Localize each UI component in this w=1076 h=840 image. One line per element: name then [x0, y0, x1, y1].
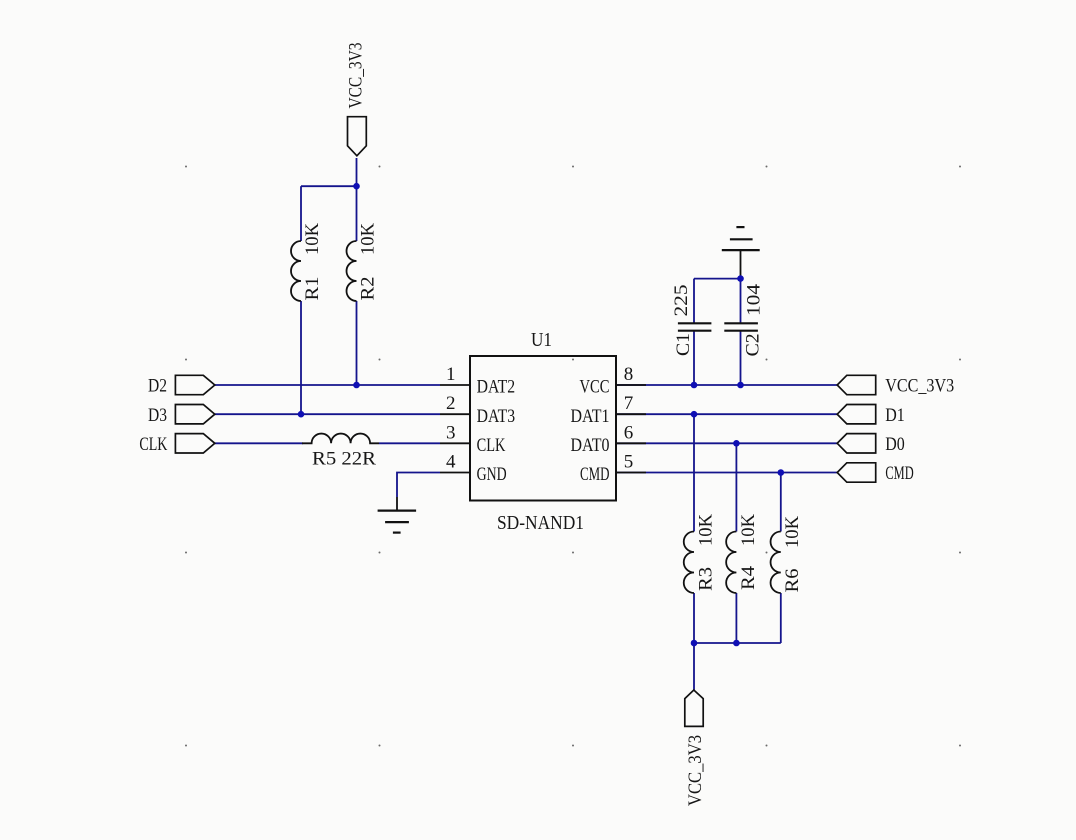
- chip U1 pin 4 stub: [440, 472, 470, 474]
- svg-text:10K: 10K: [782, 516, 803, 548]
- wire: R4 bottom lead to bottom rail: [735, 593, 737, 643]
- wire: R1 bottom to net D3: [300, 301, 302, 414]
- svg-text:R1: R1: [302, 277, 323, 301]
- svg-text:C1: C1: [673, 333, 694, 356]
- svg-text:R6: R6: [782, 569, 803, 593]
- svg-text:SD-NAND1: SD-NAND1: [497, 512, 584, 534]
- svg-text:VCC_3V3: VCC_3V3: [885, 376, 954, 397]
- svg-text:GND: GND: [477, 464, 507, 485]
- junction R4 / bottom rail: [733, 640, 740, 647]
- svg-text:5: 5: [624, 452, 634, 473]
- svg-text:7: 7: [624, 393, 634, 414]
- svg-text:10K: 10K: [696, 514, 717, 546]
- svg-text:CMD: CMD: [885, 463, 913, 484]
- wire: R4 top lead from net D0: [735, 443, 737, 531]
- chip U1 pin 6 stub: [616, 442, 646, 444]
- svg-text:C2: C2: [743, 333, 764, 356]
- wire: bottom rail to VCC_3V3 bottom flag: [693, 643, 695, 690]
- svg-text:D2: D2: [148, 376, 167, 397]
- wire: R1 top lead vertical: [300, 186, 302, 241]
- wire: C2 bottom lead to net VCC: [740, 331, 742, 385]
- chip U1 pin 8 stub: [616, 384, 646, 386]
- chip U1 pin 1 stub: [440, 384, 470, 386]
- chip U1 pin 5 stub: [616, 472, 646, 474]
- port D1: [837, 405, 876, 424]
- svg-text:CMD: CMD: [580, 464, 610, 485]
- svg-text:R5 22R: R5 22R: [312, 449, 376, 470]
- svg-text:DAT2: DAT2: [477, 377, 515, 398]
- junction R3 / net D1: [691, 411, 698, 418]
- port CLK: [175, 434, 214, 453]
- chip U1 body SD-NAND1: [470, 356, 616, 501]
- wire: R3 bottom lead to bottom rail: [693, 593, 695, 643]
- svg-text:8: 8: [624, 364, 634, 385]
- svg-text:225: 225: [671, 285, 692, 317]
- wire: C1 top lead: [693, 279, 695, 324]
- capacitor C1 plates: [678, 323, 712, 330]
- svg-text:VCC: VCC: [580, 377, 610, 398]
- svg-text:10K: 10K: [302, 223, 323, 255]
- chip U1 pin 2 stub: [440, 413, 470, 415]
- svg-text:3: 3: [446, 422, 456, 443]
- wire: C2 top lead: [740, 279, 742, 324]
- wire: node A horizontal to R1: [301, 185, 357, 187]
- svg-text:VCC_3V3: VCC_3V3: [346, 43, 367, 109]
- wire: R6 top lead from net CMD: [780, 473, 782, 532]
- wire: R6 bottom lead to bottom rail: [780, 593, 782, 643]
- chip U1 pin 7 stub: [616, 413, 646, 415]
- svg-text:VCC_3V3: VCC_3V3: [685, 735, 706, 806]
- svg-text:2: 2: [446, 393, 456, 414]
- junction C2 / net VCC: [737, 382, 744, 389]
- svg-text:104: 104: [744, 283, 765, 316]
- wire: VCC_3V3 top flag stem to node A: [356, 158, 358, 186]
- capacitor C2 plates: [724, 323, 758, 330]
- wire: R2 top lead vertical: [356, 186, 358, 241]
- svg-text:DAT0: DAT0: [571, 435, 610, 456]
- resistor R6 coil: [771, 532, 781, 594]
- wire: capacitor top rail C1 to C2: [694, 278, 741, 280]
- svg-text:D3: D3: [148, 405, 167, 426]
- wire: net D0 from U1 pin 6 to port D0: [616, 442, 837, 444]
- wire: net D2 from port D2 to U1 pin 1: [215, 384, 440, 386]
- svg-text:DAT1: DAT1: [571, 406, 610, 427]
- wire: U1 pin 4 to ground: [397, 473, 440, 498]
- junction R3 / bottom rail: [691, 640, 698, 647]
- svg-text:D0: D0: [885, 434, 905, 455]
- wire: net CMD from U1 pin 5 to port CMD: [616, 472, 837, 474]
- svg-text:D1: D1: [885, 405, 905, 426]
- svg-text:R3: R3: [696, 567, 717, 591]
- junction R6 / net CMD: [778, 469, 785, 476]
- junction C2 / top rail / ground: [737, 275, 744, 282]
- resistor R4 coil: [726, 532, 736, 594]
- svg-text:CLK: CLK: [477, 435, 506, 456]
- wire: CLK from port to R5: [215, 442, 303, 444]
- ground symbol top (for C1 C2): [722, 227, 760, 250]
- junction C1 / net VCC: [691, 382, 698, 389]
- resistor R2 coil: [347, 241, 357, 301]
- junction R1 / net D3: [298, 411, 305, 418]
- junction R4 / net D0: [733, 440, 740, 447]
- wire: R5 to U1 pin 3: [379, 442, 440, 444]
- port D2: [175, 375, 214, 394]
- ground symbol bottom (U1 GND): [378, 497, 417, 533]
- power flag VCC_3V3 bottom: [685, 690, 703, 726]
- power flag VCC_3V3 top: [348, 117, 367, 156]
- port D3: [175, 405, 214, 424]
- svg-text:CLK: CLK: [139, 434, 167, 455]
- svg-text:10K: 10K: [738, 514, 759, 546]
- svg-text:U1: U1: [531, 329, 552, 351]
- svg-text:1: 1: [446, 364, 456, 385]
- svg-text:R4: R4: [738, 565, 759, 590]
- port D0: [837, 434, 876, 453]
- svg-text:4: 4: [446, 452, 456, 473]
- resistor R1 coil: [291, 241, 301, 301]
- wire: C1 bottom lead to net VCC: [693, 331, 695, 385]
- wire: bottom rail joining R3 R4 R6: [694, 642, 781, 644]
- wire: R2 bottom to net D2: [356, 301, 358, 385]
- resistor R5 coil: [302, 434, 379, 444]
- port CMD: [837, 463, 876, 482]
- junction R2 / net D2: [353, 382, 360, 389]
- wire: net VCC from U1 pin 8 to port VCC_3V3: [616, 384, 837, 386]
- wire: net D3 from port D3 to U1 pin 2: [215, 413, 440, 415]
- wire: R3 top lead from net D1: [693, 414, 695, 531]
- wire: net D1 from U1 pin 7 to port D1: [616, 413, 837, 415]
- chip U1 pin 3 stub: [440, 442, 470, 444]
- port VCC_3V3 right: [837, 375, 876, 394]
- junction at node A (R1 R2 VCC flag): [353, 183, 360, 190]
- resistor R3 coil: [684, 532, 694, 594]
- svg-text:6: 6: [624, 422, 634, 443]
- svg-text:DAT3: DAT3: [477, 406, 515, 427]
- svg-text:R2: R2: [358, 277, 379, 301]
- svg-text:10K: 10K: [358, 223, 379, 255]
- wire: top ground stem to capacitor rail: [740, 250, 742, 279]
